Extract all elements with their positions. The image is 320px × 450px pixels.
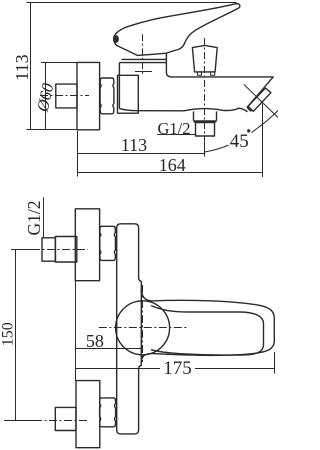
handle lever [114,4,240,54]
cartridge circle (plan) [116,301,170,355]
svg-text:58: 58 [86,331,104,351]
diverter knob left foot [197,72,201,75]
svg-text:175: 175 [163,358,192,379]
top inlet pipe (plan) [42,238,55,261]
dimension 175: dimension line right part [195,368,275,370]
diverter knob [192,45,217,72]
dimension Ø60: extension tick top [41,62,77,64]
dimension 150: top tick [11,249,34,251]
top escutcheon (plan) [75,209,99,281]
G1/2 underline leader [157,134,196,136]
inlet flange [56,84,77,108]
connection nut (side view) [100,78,114,114]
bottom escutcheon (plan) [76,381,100,448]
dimension 113 horizontal: dimension line [78,153,205,155]
spout axis construction line 45 deg [244,84,278,117]
bottom inlet centerline [4,420,88,422]
dimension 175: right extension line [274,352,276,374]
handle knob end cap [114,36,119,43]
handle plan outer silhouette [141,288,274,362]
svg-text:G1/2: G1/2 [24,201,44,236]
top inlet flange (plan) [55,237,76,263]
diverter knob right foot [211,72,215,75]
45 degree leader arc [205,111,278,153]
cartridge centerline [142,34,144,74]
dimension 113 horizontal: left extension line [77,131,79,177]
dimension 113 vertical: dimension line [30,3,32,130]
svg-text:113: 113 [12,54,32,80]
handle plan inner face [151,306,264,356]
svg-text:113: 113 [121,135,147,155]
escutcheon wall flange (side view) [77,62,100,129]
bottom inlet flange (plan) [55,407,76,430]
svg-text:164: 164 [159,155,186,175]
dimension Ø60: extension tick bottom [27,129,78,131]
bottom connection nut (plan) [100,398,116,427]
shower outlet washer line (thick) [194,120,217,122]
handle dome base [116,45,166,59]
spout aerator face (rotated rect) [248,88,271,111]
dimension 150: bottom tick [11,420,34,422]
top connection nut (plan) [100,226,116,260]
body adapter [118,75,139,113]
dimension 164: dimension line [78,172,263,174]
svg-text:Ø60: Ø60 [33,81,58,114]
top inlet centerline [32,249,88,251]
dimension 164: right extension line [262,104,264,178]
faucet body outline [119,53,273,112]
wall face line between escutcheons [75,281,77,381]
45 label backing [229,132,252,148]
shower outlet stub [194,111,217,120]
circle horizontal centerline [99,327,187,329]
dimension Ø60: dimension line [45,63,47,130]
shower outlet thread [196,123,215,137]
G1/2 leader (plan) [43,197,45,238]
body column (plan) [117,224,142,434]
svg-text:150: 150 [0,322,16,346]
inlet centerline [40,95,89,97]
svg-text:45: 45 [230,131,249,152]
dimension 58: dimension line [76,348,143,350]
circle vertical centerline [142,285,144,362]
dimension 113 horizontal: right extension (outlet axis) [204,136,206,157]
dimension 113 vertical: extension line top [27,2,237,4]
diverter axis centerline [204,38,206,136]
dimension 150: dimension line [15,250,17,421]
dimension 175: dimension line [76,368,161,370]
cartridge centerline tick [135,71,152,73]
45 degree arrow dot [247,129,250,132]
